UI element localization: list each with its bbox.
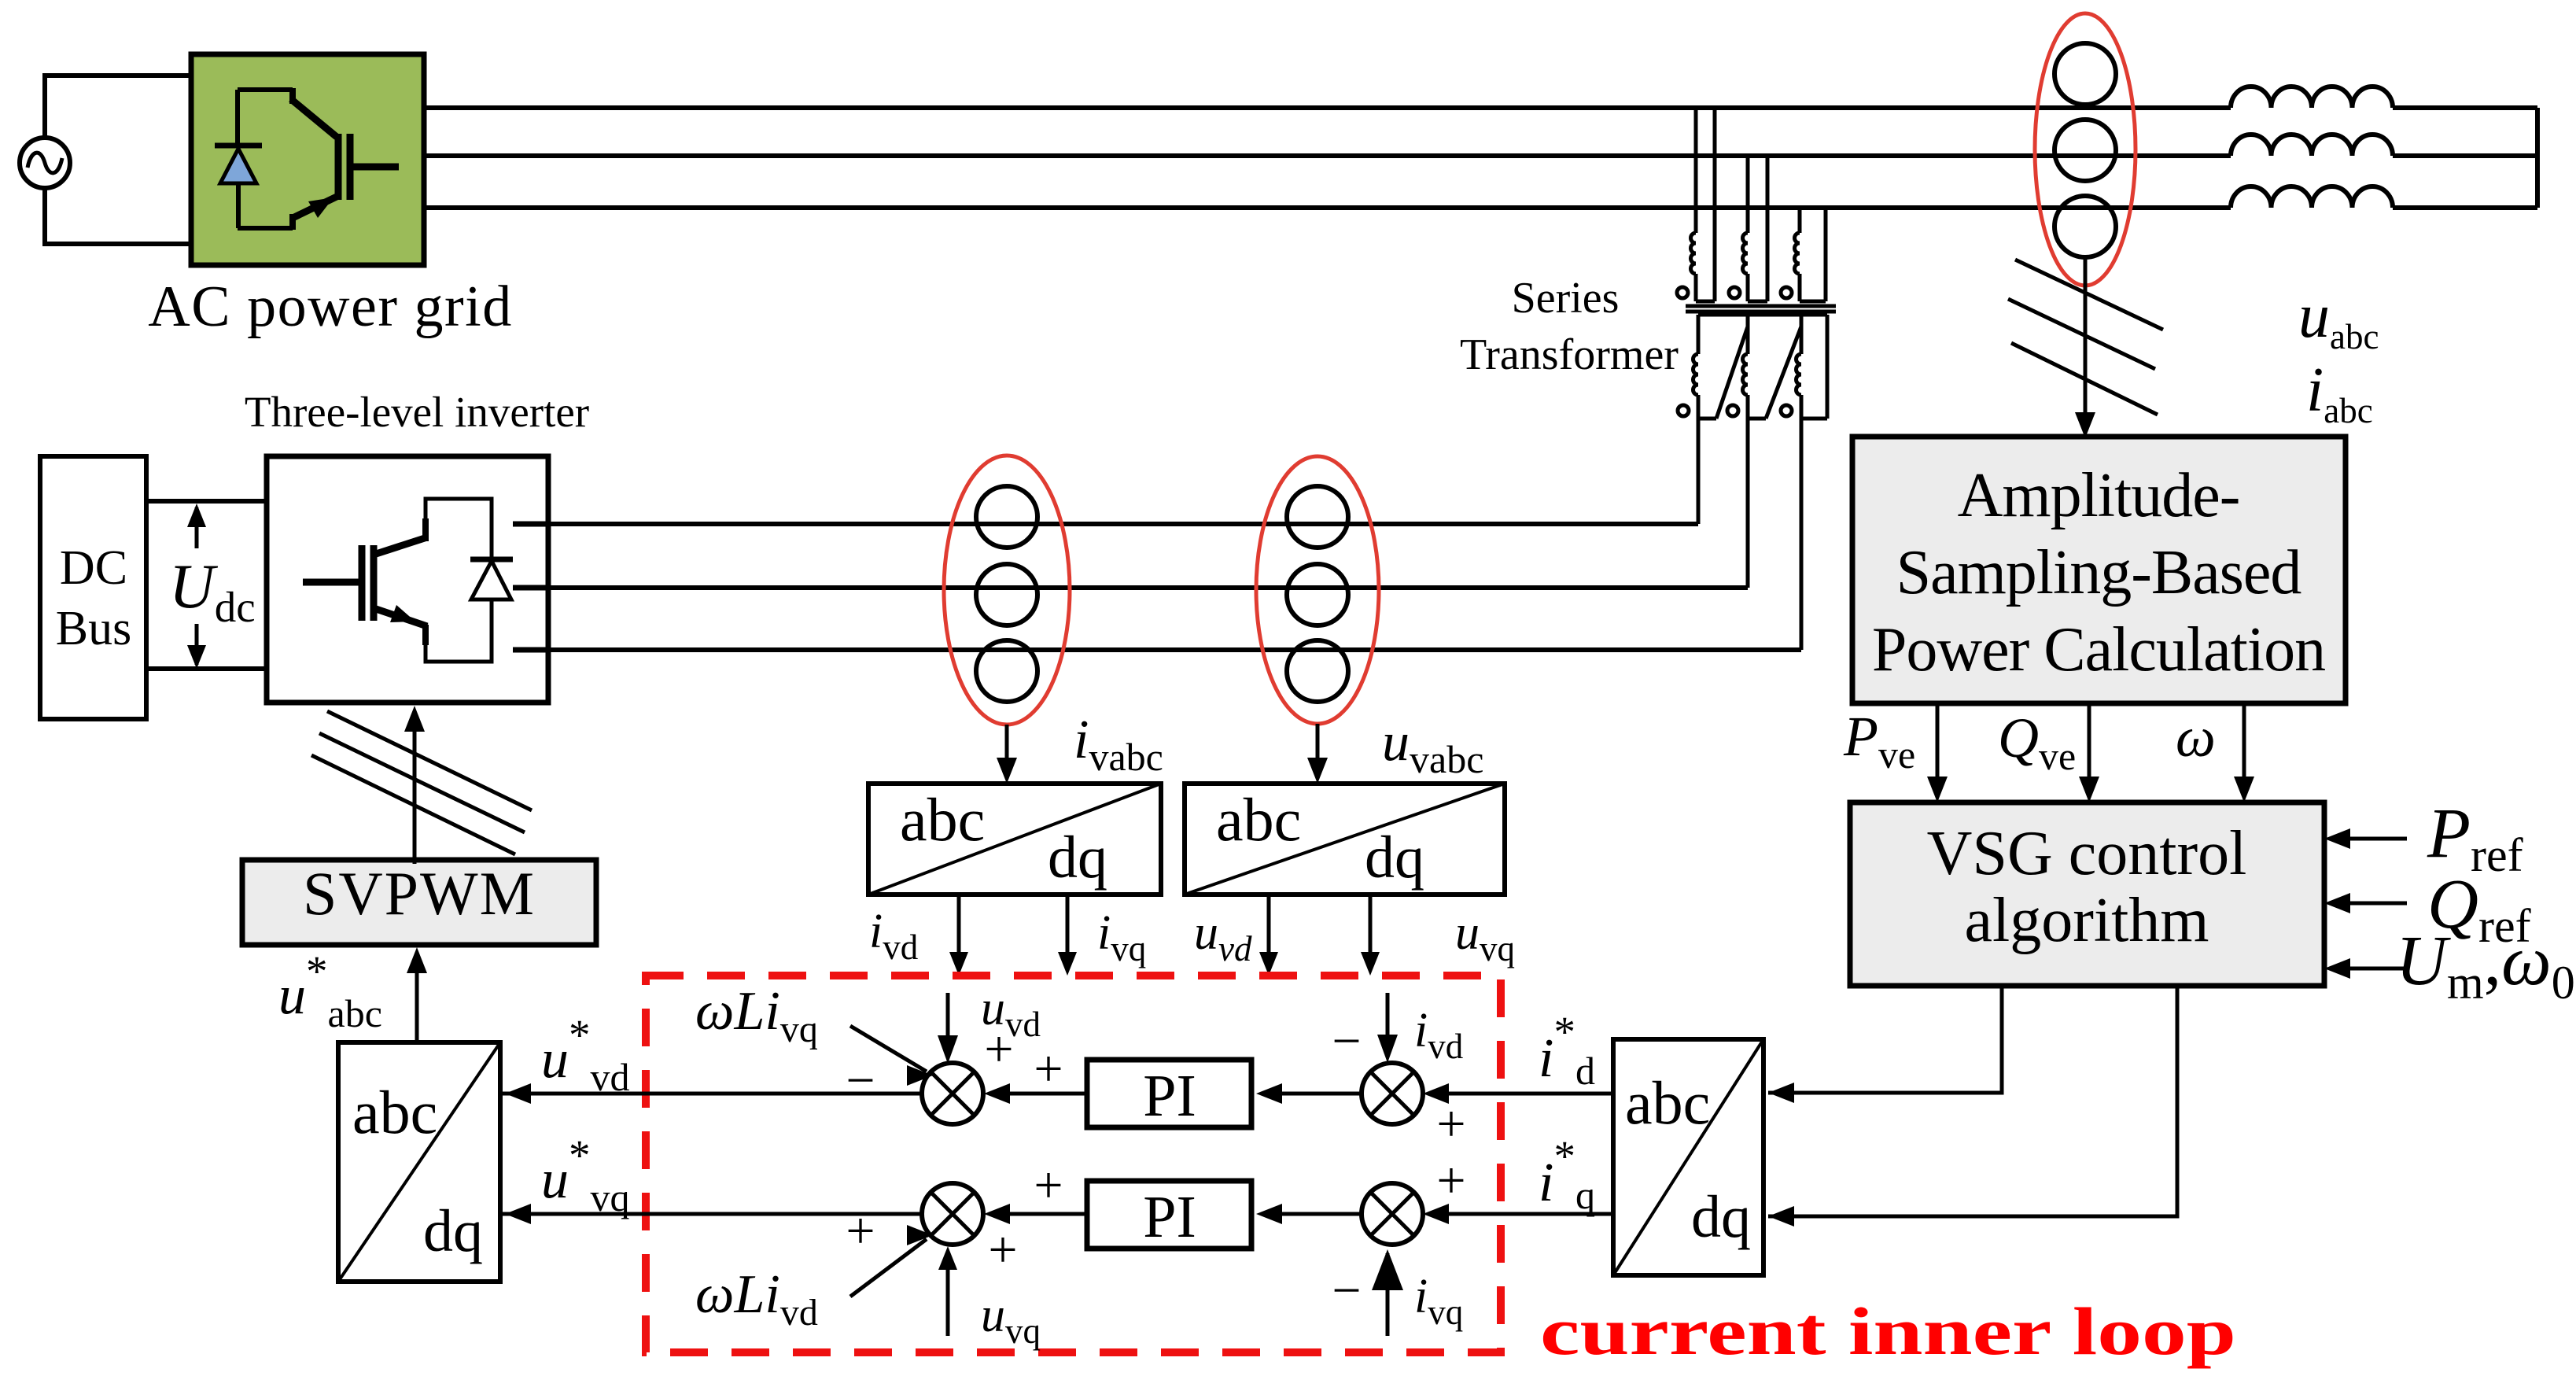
svg-text:+: +: [988, 1221, 1017, 1278]
svg-text:−: −: [846, 1052, 875, 1109]
svg-text:DC: DC: [60, 541, 127, 595]
svg-text:Um,ω0: Um,ω0: [2396, 922, 2575, 1009]
svg-text:+: +: [984, 1020, 1013, 1078]
svg-text:abc: abc: [1625, 1068, 1710, 1137]
svg-text:AC power grid: AC power grid: [148, 275, 512, 339]
svg-text:+: +: [1436, 1152, 1465, 1209]
svg-text:Sampling-Based: Sampling-Based: [1896, 538, 2302, 607]
svg-text:abc: abc: [1216, 785, 1301, 854]
svg-text:Transformer: Transformer: [1460, 330, 1679, 379]
svg-text:−: −: [1332, 1013, 1361, 1070]
svg-text:PI: PI: [1143, 1063, 1196, 1129]
svg-text:Power Calculation: Power Calculation: [1872, 615, 2325, 684]
svg-text:algorithm: algorithm: [1964, 886, 2209, 955]
svg-text:+: +: [1034, 1157, 1063, 1214]
svg-text:dq: dq: [1691, 1184, 1751, 1250]
svg-text:dq: dq: [1365, 824, 1424, 891]
svg-text:ω: ω: [2176, 706, 2216, 769]
svg-text:abc: abc: [352, 1078, 437, 1146]
svg-text:Three-level inverter: Three-level inverter: [245, 388, 589, 436]
svg-text:+: +: [1436, 1095, 1465, 1153]
svg-text:Amplitude-: Amplitude-: [1958, 461, 2240, 530]
svg-text:dq: dq: [1048, 824, 1107, 891]
svg-text:+: +: [846, 1202, 875, 1260]
svg-text:+: +: [1034, 1040, 1063, 1097]
svg-text:PI: PI: [1143, 1184, 1196, 1250]
svg-text:abc: abc: [900, 785, 985, 854]
svg-text:VSG control: VSG control: [1927, 819, 2247, 888]
svg-text:Bus: Bus: [56, 602, 131, 655]
svg-text:dq: dq: [423, 1198, 483, 1264]
svg-text:−: −: [1332, 1262, 1361, 1319]
svg-text:current inner loop: current inner loop: [1540, 1293, 2236, 1369]
svg-text:Series: Series: [1512, 274, 1620, 323]
svg-text:SVPWM: SVPWM: [303, 859, 536, 928]
